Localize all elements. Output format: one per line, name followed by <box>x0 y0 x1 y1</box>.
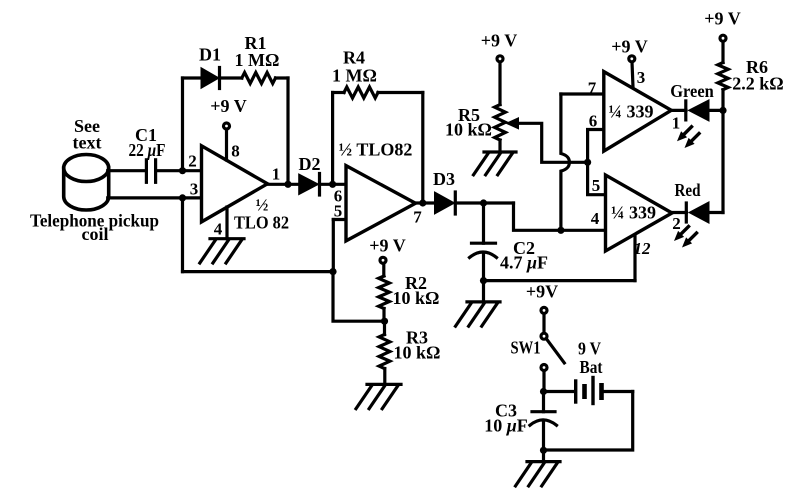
node op2 output / R4 <box>419 199 426 206</box>
op-amp U1 half TLO82 <box>202 146 268 222</box>
svg-text:9 V: 9 V <box>578 339 601 359</box>
potentiometer R5 <box>495 62 506 152</box>
node C2 bottom <box>480 277 487 284</box>
ground R5 <box>474 152 517 175</box>
LED green light arrows <box>677 127 699 148</box>
capacitor C2 <box>470 203 497 281</box>
svg-text:12: 12 <box>634 239 652 258</box>
telephone pickup coil <box>64 155 109 210</box>
wire feedback right vertical <box>286 78 289 184</box>
svg-text:Bat: Bat <box>580 357 603 377</box>
svg-text:Red: Red <box>675 180 701 200</box>
svg-text:6: 6 <box>589 112 598 131</box>
wire pin5 net down to R2R3 junction <box>333 272 385 322</box>
svg-text:10 kΩ: 10 kΩ <box>445 120 492 140</box>
svg-text:7: 7 <box>588 79 597 98</box>
diode D1 <box>202 68 220 89</box>
comparator U3a quarter 339 <box>604 72 672 152</box>
svg-text:3: 3 <box>190 180 199 199</box>
LED red <box>686 203 708 223</box>
node switch / battery / C3 top <box>540 388 547 395</box>
wire op1 pin 8 <box>225 130 228 160</box>
wire pin3 junction down <box>181 198 184 272</box>
wire R4 loop right vertical <box>421 93 424 204</box>
wire op2 output <box>416 201 436 204</box>
wire pin12 vertical <box>633 234 636 280</box>
resistor R6 <box>718 41 728 110</box>
svg-text:2: 2 <box>188 152 197 171</box>
resistor R1 <box>242 73 276 84</box>
resistor R3 <box>379 321 390 384</box>
node reference net junction <box>584 159 591 166</box>
wire bottom horizontal to pin5 net <box>183 270 334 273</box>
svg-text:+9 V: +9 V <box>210 96 246 116</box>
svg-text:½ TLO82: ½ TLO82 <box>339 140 413 160</box>
wire comp1 pin6 stub <box>588 130 604 163</box>
svg-text:5: 5 <box>334 202 343 221</box>
wire C2 node to ground <box>482 281 485 302</box>
wire comp1 output to green LED <box>671 109 686 112</box>
svg-text:1 MΩ: 1 MΩ <box>235 50 280 70</box>
wire green LED to R6 node <box>709 109 724 112</box>
+9V terminal R5 <box>497 56 503 62</box>
wire feedback top left segment <box>183 76 203 79</box>
svg-text:2: 2 <box>672 214 681 233</box>
svg-text:+9 V: +9 V <box>481 31 517 51</box>
wire R4 loop left vertical <box>331 93 334 185</box>
svg-text:10 kΩ: 10 kΩ <box>393 288 440 308</box>
node pin5 net corner <box>329 268 336 275</box>
wire R6 node down to red LED <box>721 110 724 212</box>
wire C3 to ground <box>542 450 545 461</box>
switch SW1 <box>541 307 564 391</box>
svg-text:¼ 339: ¼ 339 <box>611 203 656 223</box>
node pin2 junction <box>179 167 186 174</box>
wire R5 wiper to reference net <box>514 123 588 162</box>
comparator U3b quarter 339 <box>606 175 673 251</box>
svg-text:coil: coil <box>82 224 109 244</box>
wire D1 to R1 <box>220 76 242 79</box>
wire pin5 vertical <box>332 220 335 272</box>
wire op1 pin 4 <box>225 207 228 239</box>
svg-text:1: 1 <box>672 114 681 133</box>
ground C2 <box>456 302 501 326</box>
wire pin7 vertical with hop <box>561 94 570 230</box>
svg-text:8: 8 <box>231 142 240 161</box>
svg-text:¼ 339: ¼ 339 <box>609 102 654 122</box>
wire red LED to R6 vertical <box>709 211 724 214</box>
svg-text:5: 5 <box>592 176 601 195</box>
svg-text:3: 3 <box>637 68 646 87</box>
resistor R4 <box>344 87 378 98</box>
+9V terminal R2 <box>380 257 386 263</box>
capacitor C3 <box>530 392 557 451</box>
diode D2 <box>299 174 319 196</box>
op-amp U2 half TLO82 <box>346 166 416 241</box>
wire comp1 pin3 <box>632 62 633 87</box>
svg-text:7: 7 <box>413 208 422 227</box>
node pin6 / R4 loop <box>329 181 336 188</box>
+9V terminal op1 <box>224 123 230 129</box>
resistor R2 <box>379 263 390 321</box>
svg-text:10 kΩ: 10 kΩ <box>394 343 441 363</box>
svg-text:22 μF: 22 μF <box>129 140 166 160</box>
svg-text:+9V: +9V <box>526 282 558 302</box>
svg-text:4: 4 <box>591 209 600 228</box>
wire op1 output <box>268 183 301 186</box>
ground op1 pin4 <box>200 239 244 263</box>
wire feedback left vertical <box>181 78 184 171</box>
wire pin5 stub <box>333 218 346 221</box>
wire comp2 output to red LED <box>672 211 687 214</box>
LED green <box>686 101 709 121</box>
+9V terminal R6 <box>720 35 726 41</box>
node op1 output / feedback <box>284 181 291 188</box>
svg-text:text: text <box>73 133 102 153</box>
wire C2 node to pin12 <box>484 279 636 282</box>
svg-text:D3: D3 <box>433 169 455 189</box>
node pin3 junction <box>179 194 186 201</box>
svg-text:2.2 kΩ: 2.2 kΩ <box>732 74 783 94</box>
wire R4 top right segment <box>378 91 423 94</box>
wire coil top to C1 <box>108 169 144 172</box>
+9V terminal comp1 <box>629 56 635 62</box>
diode D3 <box>435 192 455 214</box>
node D3 / C2 <box>480 199 487 206</box>
wire R4 top left segment <box>333 91 344 94</box>
svg-text:+9 V: +9 V <box>704 9 740 29</box>
ground C3 <box>516 462 561 486</box>
svg-text:D1: D1 <box>199 45 221 65</box>
svg-text:+9 V: +9 V <box>611 37 647 57</box>
node pin7 tap on pin4 wire <box>557 227 564 234</box>
wire comp2 pin5 stub <box>588 162 606 194</box>
svg-text:R4: R4 <box>343 48 365 68</box>
LED red light arrows <box>674 227 697 248</box>
svg-text:D2: D2 <box>299 154 321 174</box>
svg-text:1 MΩ: 1 MΩ <box>332 66 377 86</box>
node green LED / R6 <box>719 107 726 114</box>
wire D3 to C2 node <box>455 201 513 204</box>
node C3 bottom / battery return <box>540 447 547 454</box>
svg-text:10 μF: 10 μF <box>484 416 528 436</box>
svg-text:1: 1 <box>272 165 281 184</box>
node R2 R3 junction <box>381 318 388 325</box>
wire C1 to op-amp pin 2 <box>156 169 202 172</box>
wire to pin4 of lower comparator <box>514 203 606 230</box>
svg-text:4: 4 <box>214 220 223 239</box>
wire pin7 horizontal <box>561 92 604 95</box>
wire D2 to op2 pin 6 <box>320 183 347 186</box>
svg-text:TLO 82: TLO 82 <box>234 213 289 233</box>
ground R3 <box>356 384 401 408</box>
capacitor C1 <box>146 160 155 183</box>
svg-text:4.7 μF: 4.7 μF <box>500 253 548 273</box>
R5 wiper arrowhead <box>505 117 519 130</box>
svg-text:+9 V: +9 V <box>369 236 405 256</box>
wire coil bottom to op-amp pin 3 <box>108 196 202 199</box>
battery B1 9V <box>544 378 633 451</box>
wire R1 to feedback right vertical <box>276 76 289 79</box>
svg-text:SW1: SW1 <box>511 338 541 358</box>
svg-text:Green: Green <box>670 81 714 101</box>
